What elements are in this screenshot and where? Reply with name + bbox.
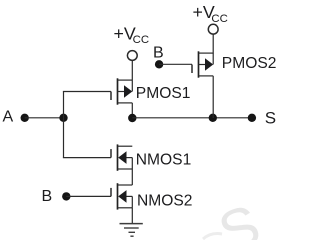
- wire branch to PMOS1 gate: [63, 91, 111, 93]
- power +VCC label (right): [193, 2, 228, 25]
- wire VCC stem (right): [212, 34, 214, 53]
- wire PMOS1 drain to output node: [131, 103, 133, 118]
- node A terminal dot: [21, 114, 29, 122]
- transistor NMOS2: [111, 183, 132, 209]
- wire gate branch vertical: [63, 92, 65, 158]
- ground: [120, 224, 143, 237]
- svg-text:PMOS2: PMOS2: [222, 55, 277, 72]
- svg-text:CC: CC: [133, 34, 149, 46]
- node gate branch junction: [59, 114, 67, 122]
- watermark: [211, 193, 269, 240]
- svg-text:NMOS1: NMOS1: [136, 152, 191, 169]
- wire NMOS1 source to NMOS2 drain: [131, 169, 133, 185]
- VCC terminal circle (left): [127, 51, 137, 61]
- VCC terminal circle (right): [208, 24, 218, 34]
- wire branch to NMOS1 gate: [63, 157, 111, 159]
- svg-text:A: A: [3, 109, 14, 126]
- wire VCC stem (left): [131, 60, 133, 80]
- wire output node to S: [132, 117, 252, 119]
- node B terminal dot (bottom): [62, 192, 70, 200]
- wire B to PMOS2 gate: [159, 63, 192, 65]
- svg-text:CC: CC: [211, 13, 227, 25]
- node output junction dot: [128, 114, 136, 122]
- svg-text:NMOS2: NMOS2: [137, 193, 192, 210]
- transistor PMOS1: [111, 78, 132, 104]
- transistor NMOS1: [111, 144, 132, 170]
- node S terminal dot: [248, 114, 256, 122]
- node PMOS2 drain junction dot: [209, 114, 217, 122]
- wire A to gate branch: [25, 117, 64, 119]
- wire NMOS2 source to ground: [131, 208, 133, 224]
- watermark tail: [203, 234, 222, 239]
- node B terminal dot (top): [155, 60, 163, 68]
- svg-text:B: B: [42, 188, 53, 205]
- svg-text:B: B: [153, 45, 164, 62]
- svg-text:PMOS1: PMOS1: [136, 85, 191, 102]
- svg-text:S: S: [265, 109, 276, 128]
- transistor PMOS2: [192, 51, 213, 77]
- power +VCC label (left): [114, 23, 150, 46]
- wire PMOS2 drain to output line: [212, 76, 214, 118]
- wire B to NMOS2 gate: [66, 195, 111, 197]
